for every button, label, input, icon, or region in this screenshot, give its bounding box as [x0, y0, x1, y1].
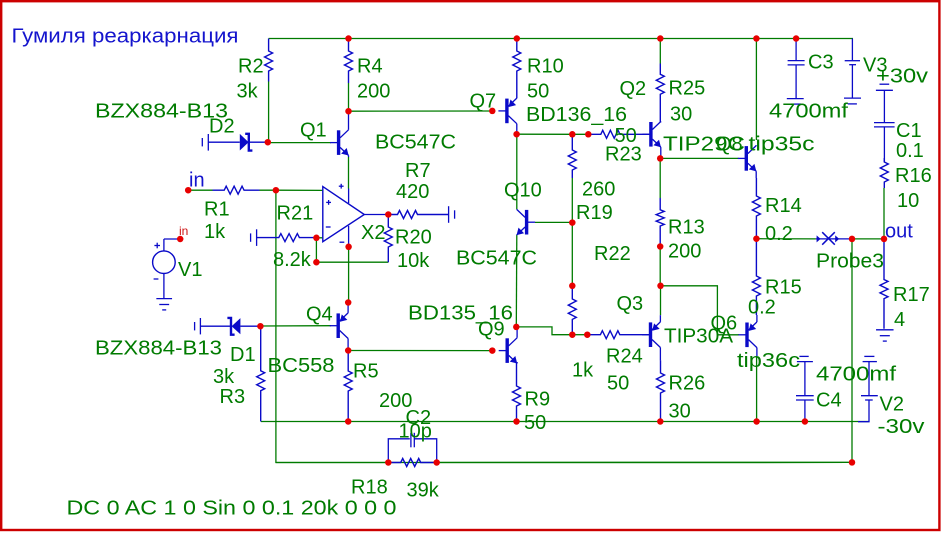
wire opamp V- net [348, 247, 350, 303]
label R26 [669, 373, 706, 395]
battery V2 [858, 356, 878, 421]
svg-text:50: 50 [607, 373, 629, 395]
svg-text:200: 200 [668, 241, 701, 263]
svg-text:D2: D2 [209, 116, 235, 138]
svg-text:50: 50 [527, 81, 549, 103]
label R23 value 50 [615, 125, 637, 147]
transistor Q7 [498, 98, 516, 134]
label R22 [594, 243, 631, 265]
label R24 value 50 [607, 373, 629, 395]
label C3 [808, 52, 834, 74]
svg-text:tip35c: tip35c [749, 134, 815, 156]
svg-text:Q10: Q10 [504, 180, 542, 202]
ground V1 [156, 299, 172, 310]
label C1 value 0.1 [896, 140, 924, 162]
label R25 [669, 78, 706, 100]
svg-text:39k: 39k [407, 480, 440, 502]
label R20 value 10k [397, 250, 430, 272]
label C2 [406, 407, 432, 429]
label R7 [405, 160, 431, 182]
label R21 [277, 203, 314, 225]
svg-text:R20: R20 [395, 227, 432, 249]
resistor R19 [568, 134, 576, 178]
svg-text:10k: 10k [397, 250, 430, 272]
wire R19 bot to Q10 node [571, 178, 573, 223]
label -30v [878, 416, 925, 438]
label R1 value 1k [204, 221, 226, 243]
wire bottom -rail [261, 421, 869, 423]
resistor R2 [265, 39, 273, 82]
wire R13 to Q3 node [659, 247, 661, 286]
wire Q10 emitter col [515, 235, 518, 327]
svg-text:R2: R2 [238, 56, 264, 78]
wire opamp V+ net [348, 157, 350, 189]
svg-text:10p: 10p [399, 421, 432, 443]
svg-text:BC547C: BC547C [375, 132, 456, 154]
label D1 [230, 344, 256, 366]
label Q1 type BC547C [375, 132, 456, 154]
label +30v [876, 66, 928, 88]
label R13 value 200 [668, 241, 701, 263]
label Q9 [478, 319, 505, 341]
svg-text:R24: R24 [606, 346, 643, 368]
wire top +rail [269, 38, 853, 40]
svg-text:R14: R14 [765, 195, 802, 217]
svg-text:out: out [885, 221, 913, 243]
svg-text:3k: 3k [213, 366, 235, 388]
label Q2 type TIP29C [663, 134, 745, 156]
svg-text:R22: R22 [594, 243, 631, 265]
svg-text:R9: R9 [525, 389, 551, 411]
ground R17 [876, 330, 894, 341]
battery V3 [844, 39, 861, 104]
wire Q3 emitter col [660, 286, 662, 315]
svg-text:0.2: 0.2 [748, 297, 776, 319]
label R19 [576, 202, 613, 224]
label R4 [357, 56, 383, 78]
opamp X2 [323, 184, 389, 247]
transistor Q3 [642, 315, 660, 360]
label R15 value 0.2 [748, 297, 776, 319]
wire -in stub [316, 237, 322, 239]
label R19 value 260 [582, 179, 615, 201]
label BZX884-B13 top [95, 101, 228, 123]
label R9 [525, 389, 551, 411]
label V3 [863, 55, 887, 77]
label C2 value 10p [399, 421, 432, 443]
label R5 [353, 361, 379, 383]
resistor R18 [388, 459, 436, 467]
resistor R17 [880, 239, 888, 329]
wire probe to out [852, 238, 884, 240]
label R14 value 0.2 [765, 223, 793, 245]
label R24 [606, 346, 643, 368]
label Q3 type TIP30A [664, 326, 734, 348]
svg-text:Probe3: Probe3 [816, 251, 884, 273]
svg-text:in: in [189, 170, 205, 192]
svg-text:Q8: Q8 [716, 134, 743, 156]
wire R2 to D2 node [268, 82, 270, 143]
capacitor C1 [874, 123, 895, 162]
title [12, 26, 239, 48]
label D1 value 3k [213, 366, 235, 388]
label DC line [67, 498, 397, 520]
transistor Q2 [642, 122, 660, 159]
svg-text:R26: R26 [669, 373, 706, 395]
label R1 [204, 199, 230, 221]
label Q7 [470, 91, 497, 113]
zener D1 [195, 318, 261, 335]
capacitor C2 [388, 433, 436, 463]
wire fb rail right [437, 461, 852, 463]
svg-text:Q2: Q2 [620, 78, 647, 100]
svg-text:R5: R5 [353, 361, 379, 383]
label C4 [816, 390, 842, 412]
label Q4 [306, 304, 333, 326]
wire +in [276, 189, 323, 191]
label Q10 type BC547C [456, 248, 537, 270]
svg-text:4700mf: 4700mf [816, 364, 897, 386]
svg-text:BD136_16: BD136_16 [526, 104, 627, 126]
label Q8 [716, 134, 743, 156]
resistor R23 [588, 130, 649, 138]
label R3 [220, 386, 246, 408]
wire node to R23 [572, 133, 588, 135]
svg-text:BC547C: BC547C [456, 248, 537, 270]
svg-text:Q4: Q4 [306, 304, 333, 326]
label R13 [668, 217, 705, 239]
terminal R21 [251, 229, 257, 246]
transistor Q8 [738, 145, 756, 178]
wire node to R24 [572, 334, 587, 336]
svg-text:200: 200 [357, 81, 390, 103]
svg-text:8.2k: 8.2k [273, 249, 312, 271]
wire Q6 collector to rail [756, 356, 758, 422]
label C1 [896, 120, 922, 142]
svg-text:R15: R15 [765, 277, 802, 299]
wire Q4C to Q9 base [348, 350, 492, 352]
label R10 [527, 56, 564, 78]
wire Q7C to R19 top [517, 133, 573, 135]
label R17 value 4 [894, 309, 905, 331]
label C3 value 4700mf [769, 101, 849, 123]
wire Q8 collector col [755, 39, 757, 141]
label R20 [395, 227, 432, 249]
wire fb row [316, 261, 388, 263]
label Q1 [300, 120, 327, 142]
wire Q7 base row [349, 110, 493, 112]
svg-text:R25: R25 [669, 78, 706, 100]
transistor Q6 [739, 315, 757, 356]
svg-text:Q1: Q1 [300, 120, 327, 142]
source V1 [153, 239, 181, 299]
zener D2 [202, 134, 267, 151]
resistor R24 [587, 331, 649, 339]
label R15 [765, 277, 802, 299]
svg-text:1k: 1k [204, 221, 226, 243]
wire R1 to +in junction [260, 189, 276, 191]
svg-text:Q3: Q3 [617, 293, 644, 315]
label Q6 [711, 313, 738, 335]
wire in to R1 [188, 189, 212, 191]
wire Q10 base [535, 221, 572, 223]
svg-text:50: 50 [524, 412, 546, 434]
resistor R21 [257, 234, 317, 242]
resistor R4 [345, 39, 353, 84]
svg-text:tip36c: tip36c [737, 350, 800, 372]
svg-text:10: 10 [897, 190, 919, 212]
label R16 value 10 [897, 190, 919, 212]
svg-text:DC 0 AC 1 0 Sin 0 0.1 20k 0 0: DC 0 AC 1 0 Sin 0 0.1 20k 0 0 0 [67, 498, 397, 520]
resistor R5 [344, 351, 352, 422]
svg-text:R19: R19 [576, 202, 613, 224]
svg-text:R10: R10 [527, 56, 564, 78]
transistor Q10 [517, 209, 535, 235]
wire Q9C jog to R22 node [516, 327, 572, 335]
capacitor C4 [796, 356, 814, 421]
label Q10 [504, 180, 542, 202]
svg-text:D1: D1 [230, 344, 256, 366]
svg-text:4700mf: 4700mf [769, 101, 849, 123]
label R2 value 3k [237, 81, 259, 103]
svg-text:R13: R13 [668, 217, 705, 239]
svg-text:R4: R4 [357, 56, 383, 78]
label R10 value 50 [527, 81, 549, 103]
transistor Q4 [330, 303, 348, 351]
label V1 [178, 259, 202, 281]
label R17 [893, 284, 930, 306]
label R16 [895, 165, 932, 187]
wire Q2E to R13 [659, 158, 661, 198]
svg-text:R21: R21 [277, 203, 314, 225]
resistor R22 [568, 286, 576, 335]
label V2 [880, 394, 904, 416]
label Q7 type BD136_16 [526, 104, 627, 126]
label C4 value 4700mf [816, 364, 897, 386]
wire Q10 node to R22 [571, 223, 573, 286]
wire probe gnd col [851, 239, 853, 463]
svg-text:R18: R18 [351, 477, 388, 499]
svg-text:30: 30 [670, 104, 692, 126]
svg-text:C4: C4 [816, 390, 842, 412]
resistor R20 [384, 215, 392, 263]
terminal R7 [449, 206, 455, 223]
wire D1 node to Q4 base [260, 325, 331, 327]
wire out row left [756, 238, 816, 240]
capacitor C3 [787, 39, 805, 105]
svg-text:Q9: Q9 [478, 319, 505, 341]
svg-text:-30v: -30v [878, 416, 925, 438]
label Q8 type tip35c [749, 134, 815, 156]
label BZX884-B13 bottom [95, 338, 222, 360]
label R7 value 420 [396, 181, 429, 203]
wire Q3 node to Q6 base [661, 286, 740, 335]
resistor R13 [656, 198, 664, 247]
label Q9 type BD135_16 [408, 303, 513, 325]
resistor R15 [752, 239, 760, 315]
wire Q10 collector col [516, 134, 518, 209]
svg-text:R7: R7 [405, 160, 431, 182]
svg-text:420: 420 [396, 181, 429, 203]
svg-text:R23: R23 [605, 144, 642, 166]
resistor R10 [513, 39, 521, 99]
wire -in to fb [315, 238, 317, 262]
svg-text:0.1: 0.1 [896, 140, 924, 162]
wire R16 to out [883, 188, 885, 239]
label R9 value 50 [524, 412, 546, 434]
svg-text:3k: 3k [237, 81, 259, 103]
svg-text:Гумиля реаркарнация: Гумиля реаркарнация [12, 26, 239, 48]
label Q3 [617, 293, 644, 315]
resistor R25 [656, 64, 664, 123]
wire R25 top [659, 39, 661, 64]
label R21 value 8.2k [273, 249, 312, 271]
resistor R7 [388, 211, 448, 219]
wire feedback column [276, 190, 852, 462]
svg-text:R17: R17 [893, 284, 930, 306]
svg-text:R1: R1 [204, 199, 230, 221]
svg-text:BC558: BC558 [268, 355, 335, 377]
label Probe3 [816, 251, 884, 273]
svg-text:X2: X2 [361, 222, 385, 244]
wire fb rail left [276, 462, 388, 464]
label R26 value 30 [669, 401, 691, 423]
wire Q2E to Q8 base [660, 157, 738, 159]
net label in small [179, 224, 188, 238]
label R4 value 200 [357, 81, 390, 103]
probe Probe3 [816, 232, 852, 245]
label in [189, 170, 205, 192]
svg-text:4: 4 [894, 309, 905, 331]
transistor Q9 [499, 327, 517, 364]
resistor R1 [213, 186, 260, 194]
net +30v port [876, 84, 893, 122]
svg-text:C3: C3 [808, 52, 834, 74]
label R18 value 39k [407, 480, 440, 502]
svg-text:R3: R3 [220, 386, 246, 408]
label R5 value 200 [379, 390, 412, 412]
svg-text:V1: V1 [178, 259, 202, 281]
svg-text:C1: C1 [896, 120, 922, 142]
resistor R16 [880, 158, 888, 188]
label Q4 type BC558 [268, 355, 335, 377]
resistor R9 [513, 362, 521, 422]
label R18 [351, 477, 388, 499]
transistor Q1 [330, 111, 348, 157]
svg-text:260: 260 [582, 179, 615, 201]
label R14 [765, 195, 802, 217]
resistor R14 [752, 178, 760, 239]
resistor R3 [257, 326, 265, 421]
svg-text:V2: V2 [880, 394, 904, 416]
svg-text:R16: R16 [895, 165, 932, 187]
svg-text:BZX884-B13: BZX884-B13 [95, 338, 222, 360]
label out [885, 221, 913, 243]
svg-text:1k: 1k [572, 360, 594, 382]
label Q2 [620, 78, 647, 100]
label R23 [605, 144, 642, 166]
label R25 value 30 [670, 104, 692, 126]
resistor R26 [657, 360, 665, 421]
label R22 value 1k [572, 360, 594, 382]
label X2 [361, 222, 385, 244]
label Q6 type tip36c [737, 350, 800, 372]
wire D2 node to Q1 base [268, 142, 331, 144]
svg-text:30: 30 [669, 401, 691, 423]
wire R4 to Q7 base node [348, 83, 350, 111]
svg-text:0.2: 0.2 [765, 223, 793, 245]
svg-text:+30v: +30v [876, 66, 928, 88]
label R2 [238, 56, 264, 78]
label D2 [209, 116, 235, 138]
svg-text:Q6: Q6 [711, 313, 738, 335]
